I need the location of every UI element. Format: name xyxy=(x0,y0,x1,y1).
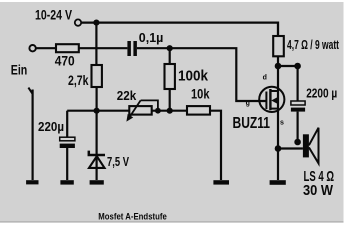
svg-text:g: g xyxy=(246,100,250,107)
svg-text:22k: 22k xyxy=(117,88,137,103)
wire 100k top lead xyxy=(169,48,171,64)
wire 220µ branch xyxy=(66,111,68,138)
capacitor 220µ electrolytic xyxy=(60,137,75,148)
supply terminal xyxy=(75,19,81,25)
node junction 2200µ / speaker xyxy=(294,139,301,146)
wire from top rail down to 2,7k xyxy=(95,23,97,65)
svg-text:4,7 Ω / 9 watt: 4,7 Ω / 9 watt xyxy=(287,38,340,52)
svg-text:10-24 V: 10-24 V xyxy=(35,8,72,23)
wire 470 to 0,1µ xyxy=(79,47,128,49)
trimmer 22k xyxy=(126,100,157,121)
node junction trimmer wiper / row xyxy=(155,108,161,114)
svg-text:7,5 V: 7,5 V xyxy=(107,154,129,169)
wire source to speaker xyxy=(278,147,303,149)
svg-text:Mosfet A-Endstufe: Mosfet A-Endstufe xyxy=(98,211,167,222)
svg-text:100k: 100k xyxy=(178,69,209,85)
resistor 2,7k xyxy=(92,65,102,87)
svg-text:10k: 10k xyxy=(191,86,210,102)
svg-text:2,7k: 2,7k xyxy=(68,73,89,88)
input screen wire with arrow hook xyxy=(28,88,32,180)
node junction drain xyxy=(275,63,282,70)
resistor 4,7 ohm xyxy=(273,36,284,56)
resistor 100k xyxy=(165,64,175,89)
resistor 10k xyxy=(187,106,210,115)
wire 220µ bottom lead xyxy=(66,148,68,180)
wire drain node to 2200µ xyxy=(278,66,298,101)
wire bias row xyxy=(67,111,221,180)
wire drain vertical through transistor xyxy=(277,66,279,149)
zener diode 7,5V xyxy=(89,151,105,168)
resistor 470 xyxy=(56,44,79,52)
wire 2200µ bottom lead xyxy=(297,112,299,142)
svg-text:470: 470 xyxy=(55,53,75,68)
wire top rail xyxy=(82,23,278,36)
wire 0,1µ to gate of BUZ11 xyxy=(137,48,267,101)
svg-text:220µ: 220µ xyxy=(38,119,64,134)
wire zener top lead xyxy=(95,111,97,180)
node junction 100k / row xyxy=(167,108,173,114)
svg-text:s: s xyxy=(280,119,284,126)
ground bar zener xyxy=(90,180,104,184)
svg-text:2200 µ: 2200 µ xyxy=(306,85,337,100)
ground bar source xyxy=(270,180,286,185)
mosfet BUZ11 xyxy=(259,87,284,112)
svg-text:Ein: Ein xyxy=(11,62,28,77)
wire 100k bottom lead xyxy=(169,89,171,111)
svg-text:d: d xyxy=(263,75,267,82)
ground bar input xyxy=(26,180,38,184)
wire source down to ground xyxy=(277,149,279,181)
speaker LS xyxy=(303,128,319,164)
wire 4,7 ohm bottom lead xyxy=(277,56,279,66)
ground bar 220µ xyxy=(60,180,73,184)
capacitor 2200µ electrolytic xyxy=(291,101,305,112)
node junction 2,7k / zener / row xyxy=(94,108,100,114)
wire Ein to 470 xyxy=(36,47,56,49)
wire 2,7k bottom lead xyxy=(95,87,97,111)
svg-text:30 W: 30 W xyxy=(303,182,334,199)
svg-text:BUZ11: BUZ11 xyxy=(233,115,271,132)
capacitor 0,1µ xyxy=(127,41,136,56)
ground bar 10k branch xyxy=(213,180,229,184)
node junction gate wire / 100k xyxy=(167,45,173,51)
svg-text:0,1µ: 0,1µ xyxy=(139,30,164,45)
input terminal Ein xyxy=(29,45,35,51)
node junction source xyxy=(275,145,282,152)
node junction 2200µ top xyxy=(294,63,301,70)
node junction on top rail xyxy=(93,20,99,26)
